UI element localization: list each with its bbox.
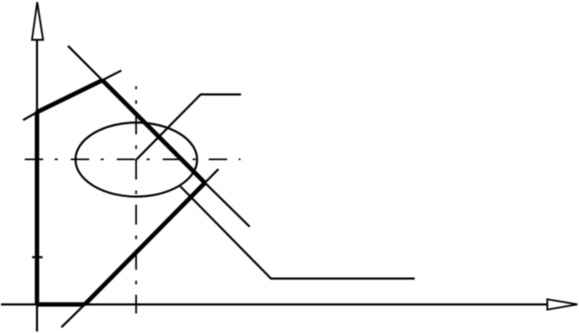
ellipse: [76, 123, 198, 197]
upper leader line: [136, 94, 241, 159]
y-axis arrowhead: [32, 2, 43, 40]
thick ascending diagonal: [85, 183, 205, 305]
thin upper extension of ascending diagonal: [205, 169, 219, 183]
x-axis shaft: [1, 303, 548, 305]
thick bottom profile line: [37, 302, 85, 306]
thick descending diagonal: [102, 80, 205, 183]
thin extension of upper-left slant (right end): [102, 71, 121, 81]
thin extension of upper-left slant (left end): [23, 112, 37, 120]
tick on vertical profile line: [32, 256, 43, 258]
thin upper extension of descending diagonal: [68, 46, 102, 80]
lower leader line: [180, 186, 414, 278]
x-axis arrowhead: [547, 299, 577, 309]
thick vertical profile line: [35, 112, 39, 305]
thick upper-left slant of profile: [36, 80, 102, 112]
horizontal center line: [25, 158, 241, 160]
thin lower extension of ascending diagonal: [61, 304, 84, 327]
thin lower extension of descending diagonal: [205, 183, 250, 227]
y-axis shaft: [36, 40, 38, 332]
vertical center line: [135, 86, 137, 313]
